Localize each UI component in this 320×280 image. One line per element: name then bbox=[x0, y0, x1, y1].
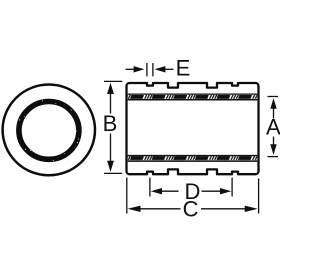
svg-text:A: A bbox=[266, 115, 280, 140]
dimension D : extension lines, arrows, label bbox=[150, 178, 232, 197]
dimension E : arrows, ticks, label bbox=[126, 63, 174, 76]
dimension A : ticks, vertical line, arrows, label bbox=[268, 97, 279, 157]
upper sleeve band bbox=[128, 94, 258, 100]
dimension C : extension lines, arrows, label bbox=[127, 178, 259, 214]
svg-text:B: B bbox=[103, 111, 118, 136]
end view sleeve ring bbox=[19, 101, 79, 159]
side view body outline bbox=[127, 83, 259, 174]
ring texture flecks bbox=[9, 91, 89, 170]
svg-text:C: C bbox=[183, 196, 199, 221]
lower sleeve band bbox=[128, 156, 258, 162]
end view outer circle bbox=[3, 85, 95, 176]
dimension B : ticks, vertical line, arrows, label bbox=[104, 81, 122, 173]
svg-text:E: E bbox=[176, 56, 191, 81]
